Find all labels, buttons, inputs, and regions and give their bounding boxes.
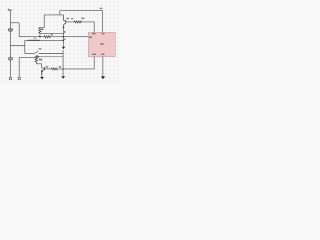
faint text below line A right of wire	[64, 39, 66, 41]
terminal circle left	[9, 77, 12, 80]
wire down x=19.2 to terminal	[18, 58, 20, 78]
small label above line B	[34, 38, 36, 39]
wire rail down to IC top-right pin	[102, 11, 104, 33]
line A y=36.9 left part	[19, 36, 44, 38]
R4 labels	[71, 18, 73, 19]
resistor R6	[51, 68, 57, 70]
junction dot emitter / line A	[63, 36, 65, 38]
junction dot switch net crossing	[62, 68, 63, 69]
power flag 5V label	[8, 8, 10, 11]
IC U1 pin label left	[89, 37, 92, 39]
wire y=14.9 horizontal	[44, 14, 63, 16]
IC U1 center label	[101, 43, 102, 44]
line C y=33.7	[40, 33, 64, 35]
IC U1 pin label bottom-left	[92, 54, 96, 55]
wire down x=19.2 to line A	[18, 23, 20, 37]
pot RV1 label	[39, 59, 42, 61]
ground arrow IC pin	[101, 76, 105, 79]
Q2 base wire	[44, 68, 51, 70]
line A y=36.9 right part to IC	[49, 36, 88, 38]
wire Q1 emitter down	[63, 29, 65, 47]
wire R6 to IC bottom-left pin	[58, 57, 94, 69]
ground arrow Q1 emitter	[62, 47, 65, 50]
R3 value label	[51, 34, 53, 35]
wire corner x=44.2 from y=14.9 down	[40, 15, 44, 28]
net label blob right of emitter wire	[64, 31, 65, 33]
R6 label	[59, 66, 62, 67]
power flag bar	[8, 9, 12, 11]
potentiometer RV1 body	[35, 55, 37, 62]
wire C1 to mid node	[9, 31, 11, 57]
R1 value label	[41, 29, 43, 31]
Q1 base wire	[66, 21, 74, 23]
transistor Q2	[42, 67, 45, 75]
switch S1 label	[39, 48, 42, 49]
switch net vertical to ground	[62, 50, 64, 76]
resistor R1 vertical	[39, 28, 41, 33]
top rail y=10.6	[60, 10, 103, 12]
wire y=57.8 from x=19.2 to pot	[19, 57, 35, 59]
wire R1 bottom to line C	[39, 33, 41, 37]
IC U1 pin label top-left	[92, 33, 95, 34]
switch S1 line	[25, 53, 34, 55]
switch S1 lever	[34, 51, 38, 53]
wire step x=25 down from line B	[24, 40, 26, 53]
resistor R4	[74, 21, 82, 23]
background	[0, 0, 120, 85]
rail net label	[100, 8, 103, 9]
mid wire y=45.7	[10, 45, 24, 47]
IC U1 body	[88, 32, 115, 56]
Q2 label	[46, 66, 49, 67]
IC U1 pin label top-right	[102, 33, 105, 34]
ground arrow Q2	[40, 77, 44, 80]
Q1 emitter arrow	[63, 27, 65, 29]
grid	[0, 0, 120, 85]
resistor R3 on line A	[44, 36, 50, 38]
Q2 emitter arrow	[41, 71, 43, 73]
wire Q2 emitter to ground	[41, 73, 43, 77]
pot bottom lead to Q2 collector	[36, 62, 41, 68]
IC U1 pin label bottom-right	[101, 54, 104, 55]
wire VCC stem down	[9, 10, 11, 29]
IC bottom-right pin wire to ground	[102, 57, 104, 77]
terminal circle right	[18, 77, 21, 80]
capacitor C1 plates	[8, 29, 13, 31]
line B y=40.5	[25, 39, 63, 41]
capacitor C2 plates	[8, 58, 13, 60]
wiper arrow into pot	[37, 56, 40, 58]
wire VCC branch right y=22.8	[10, 22, 19, 24]
junction dot R1 / line A	[39, 36, 41, 38]
switch S1 right contact and line	[39, 53, 63, 55]
line B dark segment	[28, 39, 41, 41]
ground arrow switch net	[61, 76, 65, 79]
Q1 label	[66, 18, 69, 19]
transistor Q1	[64, 15, 66, 27]
junction dot line B end	[62, 39, 64, 41]
wire C2 down to terminal	[9, 60, 11, 77]
wire R4 to IC top-left pin	[81, 22, 94, 33]
wire rail T-stub down	[59, 11, 61, 15]
wiper line y=56.3	[39, 56, 64, 58]
